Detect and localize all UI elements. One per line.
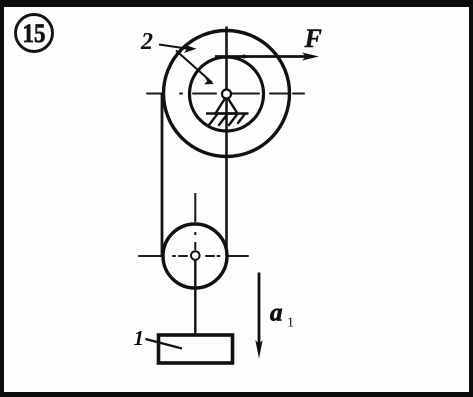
big pulley outer circle bbox=[164, 31, 290, 157]
pin support base line bbox=[206, 112, 249, 115]
small pulley axle hole bbox=[191, 251, 200, 260]
acceleration arrow a1 line bbox=[258, 273, 261, 346]
svg-text:1: 1 bbox=[134, 326, 145, 350]
frame border bottom bbox=[0, 392, 473, 397]
pin support hatching bbox=[209, 115, 245, 126]
problem number circle bbox=[16, 15, 53, 52]
small pulley vertical centerline dot bbox=[194, 232, 196, 235]
svg-text:a: a bbox=[270, 300, 283, 327]
leader line from 1 into block bbox=[146, 339, 183, 349]
pin support triangle bbox=[216, 96, 238, 114]
small pulley circle bbox=[163, 224, 227, 288]
vertical centerline / right string of big pulley bbox=[225, 27, 228, 257]
force F arrowhead bbox=[302, 53, 319, 61]
svg-text:15: 15 bbox=[23, 19, 46, 48]
small pulley vertical centerline dash bbox=[194, 242, 196, 250]
leader line from 2 to inner circle bbox=[176, 51, 212, 83]
svg-text:1: 1 bbox=[287, 316, 294, 331]
svg-text:F: F bbox=[304, 24, 322, 53]
frame border left bbox=[0, 0, 4, 397]
frame border top bbox=[0, 0, 473, 7]
left string tangent to both pulleys bbox=[161, 94, 164, 257]
leader line from 2 to outer rim bbox=[159, 45, 188, 49]
small pulley horizontal dash-dot centerline bbox=[139, 255, 248, 257]
big pulley inner circle bbox=[190, 57, 264, 131]
acceleration arrowhead bbox=[255, 340, 262, 359]
load string from pulley axle to block bbox=[194, 251, 196, 336]
leader arrowhead at inner circle bbox=[204, 78, 214, 85]
block (load 1) bbox=[159, 335, 233, 363]
leader arrowhead at outer rim bbox=[184, 45, 197, 54]
svg-text:2: 2 bbox=[140, 29, 153, 55]
force F line bbox=[215, 55, 308, 58]
small pulley vertical centerline above bbox=[194, 193, 196, 222]
pin circle (axle) bbox=[222, 90, 231, 99]
tangent point dot on F line bbox=[242, 55, 246, 59]
frame border right bbox=[469, 0, 473, 397]
horizontal dash-dot centerline of big pulley bbox=[147, 93, 304, 95]
